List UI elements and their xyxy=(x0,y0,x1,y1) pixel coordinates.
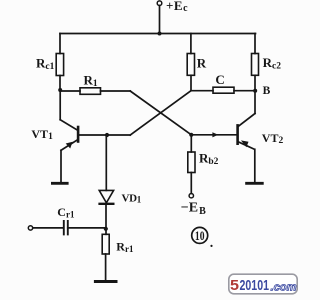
node B junction dot xyxy=(253,89,257,93)
capacitor Cr1 plates xyxy=(64,221,68,234)
wire node RC to C xyxy=(191,90,213,92)
wire VD1 branch upper xyxy=(105,135,107,190)
svg-text:20101: 20101 xyxy=(240,277,270,294)
resistor Rc2 xyxy=(252,54,259,76)
wire VT2 collector diagonal xyxy=(239,114,256,127)
wire Rr1 to ground xyxy=(105,254,107,280)
node A1 junction dot xyxy=(58,88,62,92)
wire cross-coupling diagonal to VT2 base xyxy=(130,91,191,135)
wire node A1 down to VT1 collector xyxy=(59,90,61,120)
arrow on VT2 base wire xyxy=(212,132,218,137)
transistor VT1 base bar xyxy=(77,127,80,142)
wire rail to Rc1 xyxy=(59,34,61,54)
wire Rc1 to node A1 xyxy=(59,76,61,91)
junction dot Cr1/Rr1 node xyxy=(104,227,108,231)
wire VT1 emitter down xyxy=(60,150,62,181)
wire rail to Rc2 xyxy=(254,34,256,54)
wire Rb2 upper xyxy=(190,135,192,152)
wire VT1 base line xyxy=(79,134,130,136)
junction dot VT2 base / Rb2 xyxy=(189,133,193,137)
figure number circle 10 xyxy=(192,227,208,243)
wire VT2 base line xyxy=(191,134,236,136)
transistor VT2 emitter xyxy=(238,142,254,150)
wire VD1 to node Cr1/Rr1 xyxy=(105,204,107,235)
ground under Rr1 xyxy=(95,280,116,283)
resistor Rb2 xyxy=(188,152,195,173)
wire top supply rail xyxy=(60,33,256,35)
wire R1 to bend xyxy=(101,90,131,92)
resistor R1 xyxy=(80,88,101,95)
wire node A1 to R1 xyxy=(60,90,80,92)
wire C to node B xyxy=(234,90,255,92)
svg-text:B: B xyxy=(263,85,271,97)
junction dot on rail at +Ec xyxy=(158,32,162,36)
svg-text:.com: .com xyxy=(271,282,297,294)
svg-text:C: C xyxy=(215,72,224,87)
transistor VT1 emitter arrow xyxy=(66,142,73,149)
terminal input circle xyxy=(28,226,32,230)
resistor Rc1 xyxy=(56,54,63,76)
wire input to Cr1 xyxy=(33,227,64,229)
wire cross-coupling diagonal from R,C node to VT1 base xyxy=(130,91,191,135)
transistor VT2 emitter arrow xyxy=(241,140,249,147)
wire Rb2 to terminal xyxy=(190,173,192,194)
junction dot VT1 base / VD1 branch xyxy=(105,133,109,137)
transistor VT1 emitter xyxy=(61,140,78,151)
svg-text:R: R xyxy=(197,56,207,71)
ground under VT1 xyxy=(52,182,67,185)
watermark 520101.com xyxy=(229,274,297,294)
wire +Ec stub xyxy=(159,6,161,34)
wire VT1 collector diagonal xyxy=(60,120,77,130)
resistor Rr1 xyxy=(102,234,109,254)
wire rail to R xyxy=(190,34,192,54)
diode VD1 cathode bar xyxy=(100,203,114,205)
resistor R xyxy=(187,54,194,76)
svg-text:5: 5 xyxy=(230,277,239,294)
terminal +Ec xyxy=(157,1,162,6)
diode VD1 triangle xyxy=(99,190,113,202)
stray dot by figure number xyxy=(210,245,212,247)
svg-text:+Ec: +Ec xyxy=(166,0,188,14)
wire node B down to VT2 collector xyxy=(254,91,256,114)
transistor VT2 base bar xyxy=(236,125,239,143)
svg-text:VD1: VD1 xyxy=(122,193,142,205)
wire VT2 emitter down xyxy=(254,149,256,181)
ground under VT2 xyxy=(247,182,263,185)
terminal -EB circle xyxy=(189,194,193,198)
wire Rc2 to node B xyxy=(254,75,256,90)
capacitor C (box style) xyxy=(213,87,234,93)
wire R to node RC xyxy=(190,75,192,90)
svg-text:10: 10 xyxy=(195,229,205,243)
wire Cr1 to node xyxy=(68,227,106,229)
